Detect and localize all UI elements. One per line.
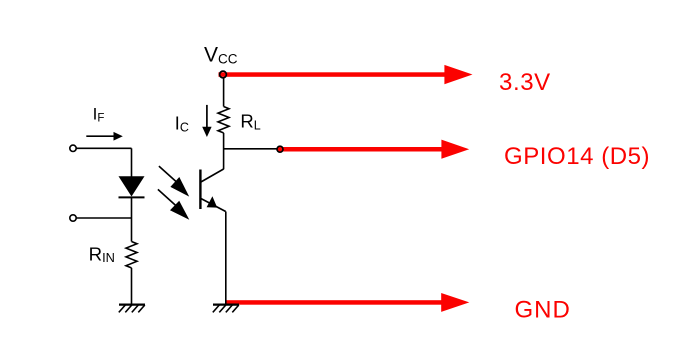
ground (input side): [119, 305, 145, 313]
node GPIO tap: [277, 146, 283, 152]
resistor RIN: [126, 242, 137, 268]
arrowhead GPIO14 red: [441, 140, 469, 159]
svg-text:GND: GND: [515, 296, 571, 323]
terminal: input bottom-left: [70, 215, 76, 221]
base bar: [199, 170, 201, 210]
terminal: input top-left: [70, 145, 76, 151]
emitter arrowhead: [207, 196, 218, 207]
wire: cathode down through junction to resistor: [131, 197, 133, 241]
wire: Vcc node down to RL: [223, 78, 225, 107]
emitter lead: [201, 199, 226, 212]
node Vcc: [220, 71, 227, 78]
collector lead: [201, 169, 224, 182]
transistor Q1 (photo-transistor): [200, 169, 225, 212]
wire: anode down to LED: [131, 148, 133, 177]
wire: RL down to collector: [223, 133, 225, 169]
wire: bottom-left terminal to cathode branch: [76, 217, 131, 219]
wire: top-left terminal to anode branch: [76, 147, 131, 149]
arrowhead GND red: [441, 293, 469, 312]
LED D1 (emitter diode): [119, 176, 145, 197]
arrow IF current direction: [86, 132, 123, 141]
wire: GND red bus from emitter ground: [226, 300, 446, 305]
ground (output side): [213, 305, 239, 313]
wire: 3.3V red bus from Vcc node: [219, 72, 447, 77]
arrow IC current direction: [202, 105, 211, 137]
svg-text:GPIO14 (D5): GPIO14 (D5): [504, 143, 650, 170]
wire: emitter down to ground: [225, 212, 227, 305]
arrowhead 3.3V red: [444, 65, 472, 84]
wire: GPIO14 red bus from collector node: [282, 147, 446, 152]
svg-text:3.3V: 3.3V: [499, 69, 551, 96]
light arrow 2: [158, 189, 189, 219]
resistor RL: [218, 107, 229, 133]
wire: collector row out to GPIO node: [224, 148, 280, 150]
light arrow 1: [159, 166, 189, 197]
wire: resistor to ground: [131, 268, 133, 305]
